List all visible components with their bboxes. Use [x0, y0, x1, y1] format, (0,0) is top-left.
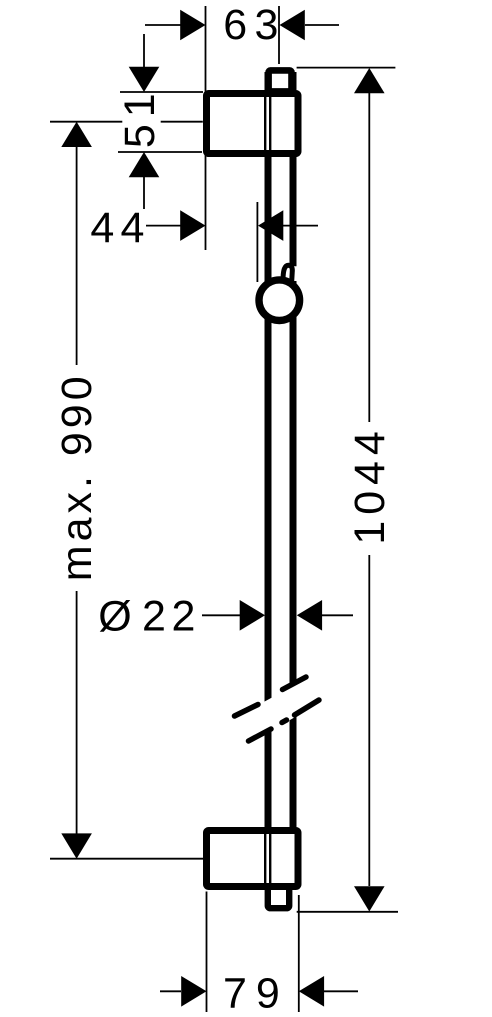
dim max990 arrow up	[61, 122, 92, 147]
svg-text:44: 44	[90, 204, 150, 252]
dim 51 extension line bottom	[118, 151, 202, 153]
dim 63 arrow left	[180, 10, 205, 41]
dim 63 extension line left	[205, 6, 207, 250]
dim 51 arrow down	[129, 67, 160, 92]
dim max990 line upper	[76, 146, 78, 365]
dim 79 extension line right	[298, 895, 300, 1012]
dim d22 arrow right	[297, 600, 322, 631]
dim 1044 reference line top	[297, 67, 396, 69]
dim 44 tail left	[146, 225, 181, 227]
svg-text:1044: 1044	[346, 425, 394, 544]
dim max990 reference line top	[50, 121, 122, 123]
dim 63 extension line right	[278, 6, 280, 64]
dim 51 stem below	[143, 177, 145, 209]
rod outline inside bottom bracket	[264, 834, 266, 883]
dim 1044 reference line bottom	[297, 911, 398, 913]
dim 1044 label	[346, 425, 394, 544]
dim 51 arrow up	[129, 152, 160, 177]
wire rod right edge lower	[290, 281, 297, 888]
svg-text:63: 63	[223, 1, 286, 49]
dim 79 arrow left	[181, 976, 206, 1007]
dim 1044 line upper	[368, 93, 370, 422]
dim 44 arrow left	[180, 210, 205, 241]
rod outline inside top bracket	[264, 97, 266, 150]
dim 1044 arrow down	[354, 886, 385, 911]
bottom wall bracket	[207, 831, 299, 887]
dim 79 arrow right	[299, 976, 324, 1007]
dim max990 label	[53, 372, 101, 581]
dim 44 arrow right	[258, 210, 283, 241]
break lower dot	[282, 720, 287, 723]
break upper dash left	[235, 705, 259, 717]
dim max990 line lower	[76, 591, 78, 834]
svg-text:Ø: Ø	[98, 592, 131, 640]
break band mask	[225, 665, 332, 757]
svg-text:51: 51	[116, 86, 164, 148]
dim d22 arrow left	[240, 600, 265, 631]
slider ring	[259, 280, 300, 321]
dim 1044 arrow up	[354, 68, 385, 93]
dim 1044 line lower	[368, 555, 370, 886]
dim 79 tail left	[160, 990, 181, 992]
wire rod left edge	[265, 72, 272, 888]
top wall bracket	[207, 94, 299, 154]
dim 79 tail right	[324, 990, 358, 992]
rod top cap	[269, 70, 292, 91]
dim 79 extension line left	[206, 892, 208, 1013]
dim 63 tail left	[145, 24, 181, 26]
dim d22 tail left	[202, 614, 240, 616]
svg-text:22: 22	[142, 592, 201, 640]
dim 63 arrow right	[280, 10, 305, 41]
break lower dash left	[249, 729, 272, 741]
dim 44 reference line	[256, 202, 258, 282]
dim max990 reference line bottom	[50, 858, 204, 860]
dim 51 stem above	[143, 34, 145, 68]
break lower dash right	[295, 700, 320, 715]
dim d22 tail right	[322, 614, 353, 616]
dim 51 label	[116, 86, 164, 148]
rod bottom cap	[268, 886, 289, 908]
svg-text:max. 990: max. 990	[53, 372, 101, 581]
dim max990 arrow down	[61, 833, 92, 858]
dim 44 tail right	[283, 225, 318, 227]
break upper dash right	[283, 677, 307, 690]
svg-text:79: 79	[223, 970, 289, 1017]
slider ring hook	[283, 265, 292, 281]
wire rod right edge upper	[290, 72, 297, 266]
dim 51 extension line top	[120, 91, 203, 93]
dim 63 tail right	[305, 24, 339, 26]
